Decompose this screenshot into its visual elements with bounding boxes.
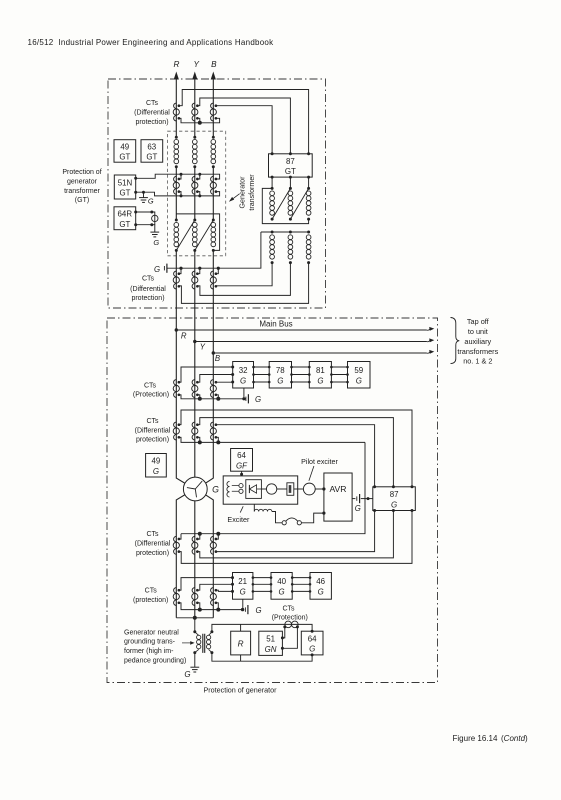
ground: CT3 common earth (154, 264, 167, 275)
svg-text:GT: GT (285, 167, 296, 176)
device: 64R measuring element circle (152, 215, 158, 221)
relay 63GT (141, 140, 163, 163)
wire: 51N GT bottom connection (136, 192, 220, 196)
ground: CT4 common earth (246, 394, 261, 404)
svg-text:G: G (148, 197, 154, 206)
svg-text:GT: GT (119, 153, 130, 162)
wire: relay row 2 links y=591.4 (253, 590, 310, 592)
svg-text:R: R (238, 640, 244, 649)
brace: tap off (451, 318, 460, 364)
brush element box (277, 483, 304, 496)
GT delta winding Y (192, 219, 197, 252)
bus R (175, 327, 435, 341)
svg-text:pedance grounding): pedance grounding) (124, 657, 186, 664)
wire: CT3 R tap to HV coil3 (179, 263, 309, 304)
svg-text:G: G (255, 395, 261, 404)
slip ring contacts (272, 511, 326, 524)
CT B-phase generator differential bottom (210, 536, 217, 554)
svg-text:protection): protection) (131, 295, 164, 302)
label: CTs (Differential protection) generator bottom (135, 531, 171, 557)
HV delta winding 1 (270, 187, 275, 221)
relay 81G (309, 362, 331, 389)
bus Y (193, 338, 434, 351)
HV star winding 3 (306, 231, 311, 265)
wire: CT pair to 51GN (282, 627, 297, 648)
CT R-phase generator protection (173, 588, 180, 606)
node: 87GT terminals x=308.6 (307, 152, 310, 155)
svg-text:transformer: transformer (64, 188, 100, 195)
relay 59G (348, 362, 371, 389)
wire: field loop right edge and bottom (181, 442, 365, 533)
svg-text:81: 81 (316, 366, 325, 375)
wire: CT6 top taps to field loop bottom line (179, 534, 218, 539)
svg-text:63: 63 (147, 142, 156, 151)
wire: CT4 B tap to 32G (216, 381, 233, 383)
HV delta diagonal 1 (272, 188, 290, 219)
wire: phase Y vertical (194, 77, 196, 618)
GT delta diagonal R-Y (176, 220, 195, 250)
phase arrow R (174, 72, 179, 80)
phase arrow Y (192, 72, 197, 80)
relay 32G (233, 362, 254, 389)
relay 64G (301, 631, 323, 655)
svg-text:51: 51 (266, 635, 275, 644)
wire: CT7 R tap to 21G (179, 578, 233, 591)
label: pilot exciter (301, 458, 338, 481)
svg-text:R: R (181, 332, 187, 341)
svg-text:Exciter: Exciter (227, 515, 250, 524)
svg-text:40: 40 (277, 577, 286, 586)
wire: phase B vertical (203, 77, 213, 618)
label: tap off to unit auxiliary transformers (457, 317, 498, 366)
svg-text:49: 49 (120, 142, 129, 151)
dashed enclosure: generator transformer windings (168, 131, 226, 256)
svg-text:21: 21 (238, 577, 247, 586)
wire: CT3 B tap to HV coil1 (216, 263, 272, 286)
relay 49G (146, 454, 167, 478)
figure caption (453, 734, 529, 743)
bus B (212, 350, 435, 363)
svg-text:64R: 64R (118, 210, 133, 219)
wire: CT7 Y tap to 21G (197, 584, 232, 590)
svg-text:to unit: to unit (468, 327, 488, 336)
svg-text:G: G (184, 670, 190, 679)
label: CTs (Protection) neutral (272, 605, 308, 621)
relay 51N GT (114, 175, 135, 199)
ground: 51N GT earth (139, 192, 154, 205)
svg-text:64: 64 (237, 451, 246, 460)
node: 87GT terminals x=272.1 (271, 152, 274, 155)
relay 64GF (231, 449, 253, 472)
CT Y-phase generator protection (192, 588, 199, 606)
wire: pilot exciter to AVR (315, 488, 324, 490)
svg-text:auxiliary: auxiliary (464, 337, 491, 346)
wire: secondary loop top (212, 624, 312, 631)
HV star winding 1 (270, 231, 275, 265)
wire: 87GT to HV delta tops (272, 177, 309, 188)
wire: CT3 common line to ground and HV star (167, 232, 261, 274)
wire: CT7 common to earth (179, 603, 244, 610)
CT R-phase GT 51N (173, 176, 180, 194)
wire: relay row 2 links y=577.6 (253, 577, 310, 579)
svg-text:G: G (356, 376, 362, 385)
svg-text:grounding trans-: grounding trans- (124, 639, 176, 646)
CT Y-phase GT differential top (192, 103, 199, 121)
CT R-phase GT differential bottom (173, 271, 180, 289)
exciter field coil (227, 481, 230, 497)
svg-text:G: G (277, 376, 283, 385)
CT Y-phase GT 51N (192, 176, 199, 194)
GT delta winding connection lines (176, 214, 219, 251)
relay 40G (271, 573, 292, 600)
wire: CT4 common to earth (179, 395, 244, 399)
CT Y-phase bus protection (192, 380, 199, 398)
svg-text:CTs: CTs (146, 418, 159, 425)
wire: relay row 2 links y=584.3 (253, 583, 310, 585)
svg-text:CTs: CTs (146, 100, 159, 107)
svg-text:GN: GN (265, 645, 277, 654)
relay 78G (269, 362, 291, 389)
exciter rotating element circle (261, 488, 266, 490)
CT B-phase GT differential bottom (210, 271, 217, 289)
generator G (183, 477, 219, 501)
dashed enclosure: protection of generator transformer (108, 79, 326, 308)
ground: CT7 common earth (245, 605, 261, 615)
HV star winding 2 (288, 231, 293, 265)
svg-text:(Protection): (Protection) (272, 615, 308, 622)
node: 87GT terminals x=290.4 (289, 152, 292, 155)
wire: relay row links y=382.0 (254, 381, 348, 383)
svg-text:G: G (391, 500, 397, 509)
svg-text:Pilot exciter: Pilot exciter (301, 458, 338, 466)
svg-text:Protection of generator: Protection of generator (203, 686, 277, 695)
svg-text:(Differential: (Differential (130, 286, 166, 293)
GT delta winding R (174, 219, 179, 252)
CT Y-phase generator differential bottom (192, 536, 199, 554)
svg-text:AVR: AVR (329, 484, 346, 494)
svg-text:(Protection): (Protection) (133, 392, 169, 399)
svg-text:(Contd): (Contd) (501, 734, 528, 743)
svg-text:46: 46 (316, 577, 325, 586)
svg-text:R: R (174, 60, 180, 69)
wire: CT1 R tap to 87GT (179, 90, 309, 154)
wire: 87G to CT6 B (216, 511, 375, 552)
svg-text:former (high im-: former (high im- (124, 648, 174, 655)
svg-text:Tap off: Tap off (467, 317, 490, 326)
svg-text:(Differential: (Differential (135, 428, 171, 435)
label: CTs differential protection (top) (134, 100, 170, 126)
wire: CT1 star common (179, 118, 220, 123)
wire: AVR to 87G with ground (352, 494, 373, 513)
svg-text:51N: 51N (118, 178, 133, 187)
label: CTs (Protection) bus (133, 382, 169, 398)
svg-text:Figure 16.14: Figure 16.14 (453, 734, 498, 743)
exciter terminals (232, 486, 239, 492)
relay 49GT (114, 140, 136, 163)
svg-text:CTs: CTs (142, 276, 155, 283)
svg-text:GT: GT (119, 220, 130, 229)
svg-text:Generator: Generator (239, 176, 247, 209)
relay 87G (373, 487, 416, 511)
svg-text:transformer: transformer (248, 174, 256, 211)
CT R-phase generator differential bottom (173, 536, 180, 554)
wire: phase R vertical (176, 77, 187, 618)
svg-text:G: G (153, 467, 159, 476)
label: exciter (227, 506, 250, 524)
svg-text:G: G (309, 645, 315, 654)
wire: 32G bottom stub to earth point (243, 388, 245, 399)
wire: CT5 B tap to 87G (216, 425, 375, 487)
field inductor below exciter (254, 504, 272, 511)
svg-text:78: 78 (276, 366, 285, 375)
svg-text:87: 87 (390, 490, 399, 499)
wire: CT4 R tap to 32G (179, 367, 233, 382)
node: 87G terminal x=412 (411, 485, 414, 488)
relay 51GN (259, 631, 283, 655)
svg-text:87: 87 (286, 157, 295, 166)
svg-text:G: G (240, 376, 246, 385)
svg-text:GT: GT (146, 153, 157, 162)
ground: 64R earth (150, 225, 159, 247)
HV delta winding 2 (288, 187, 293, 221)
label: CTs (Differential protection) generator top (135, 418, 171, 444)
label: CTs differential protection (below GT) (130, 276, 166, 303)
CT Y-phase generator differential top (192, 422, 199, 440)
wire: 87G to CT6 R (179, 511, 412, 564)
rectifier box with diode (246, 480, 262, 499)
exciter box (223, 476, 298, 504)
wire: CT5 Y tap to 87G (197, 418, 393, 487)
svg-text:B: B (215, 354, 220, 363)
svg-text:G: G (355, 504, 361, 513)
GT primary winding B (211, 136, 216, 169)
relay 87GT (269, 154, 313, 177)
GT primary winding R (174, 136, 179, 169)
HV delta closing loop (262, 188, 308, 223)
AVR box (324, 473, 352, 521)
svg-text:generator: generator (67, 178, 98, 185)
svg-text:Generator neutral: Generator neutral (124, 629, 179, 636)
CT Y-phase GT differential bottom (192, 271, 199, 289)
svg-text:64: 64 (308, 635, 317, 644)
svg-text:G: G (153, 238, 159, 247)
resistor R box (231, 631, 251, 655)
label: generator neutral grounding transformer (124, 629, 195, 664)
svg-text:16/512 Industrial Power Engin: 16/512 Industrial Power Engineering and … (28, 38, 275, 47)
GT primary winding Y (192, 136, 197, 169)
relay 46G (310, 573, 331, 600)
wire: 64GF stub (241, 471, 243, 476)
grounding transformer (193, 630, 213, 654)
CT R-phase GT differential top (173, 103, 180, 121)
svg-text:CTs: CTs (144, 382, 157, 389)
relay 21G (233, 573, 253, 600)
CT pair on neutral secondary (283, 621, 299, 628)
svg-text:protection): protection) (136, 437, 169, 444)
wire: secondary loop bottom (212, 653, 312, 662)
svg-text:protection): protection) (136, 550, 169, 557)
CT B-phase GT 51N (210, 176, 217, 194)
svg-text:32: 32 (239, 366, 248, 375)
svg-text:B: B (211, 60, 217, 69)
CT B-phase bus protection (210, 380, 217, 398)
CT B-phase GT differential top (210, 103, 217, 121)
label: CTs (protection) generator (133, 588, 168, 604)
wire: CT3 Y tap to HV coil2 (197, 263, 290, 296)
GT delta diagonal Y-B (195, 220, 214, 250)
HV delta diagonal 2 (290, 188, 308, 219)
svg-text:G: G (240, 588, 246, 597)
dashed enclosure: protection of generator (107, 318, 438, 683)
CT B-phase generator differential top (210, 422, 217, 440)
HV star top line (261, 231, 309, 233)
svg-text:G: G (317, 376, 323, 385)
svg-text:G: G (318, 588, 324, 597)
CT R-phase generator differential top (173, 422, 180, 440)
label: generator transformer (rotated) with arrow (229, 174, 256, 211)
wire: CT4 Y tap to 32G (197, 375, 232, 383)
wire: CT7 B tap to 21G (216, 590, 233, 591)
svg-text:CTs: CTs (146, 531, 159, 538)
wire: phase convergence to neutral (176, 618, 213, 632)
wire: R box stubs (240, 624, 242, 661)
svg-text:59: 59 (354, 366, 363, 375)
wire: 21G bottom stub to earth point (242, 599, 244, 609)
wire: CT1 B tap to 87GT (216, 106, 272, 154)
relay 64R GT (114, 207, 136, 230)
wire: 51N GT top connection (136, 174, 220, 179)
svg-text:no. 1 & 2: no. 1 & 2 (463, 357, 492, 366)
node: 87G terminal x=374.6 (373, 485, 376, 488)
wire: 64R GT taps (136, 212, 155, 225)
wire: relay row links y=367.0 (254, 366, 348, 368)
svg-text:(protection): (protection) (133, 597, 168, 604)
svg-text:G: G (279, 588, 285, 597)
node: CT1 common junction (198, 121, 202, 125)
svg-text:GF: GF (236, 462, 248, 471)
svg-text:(GT): (GT) (75, 197, 89, 204)
node: 87G terminal x=393.4 (392, 485, 395, 488)
svg-text:Y: Y (200, 343, 206, 352)
CT B-phase generator protection (210, 588, 217, 606)
svg-text:GT: GT (120, 189, 131, 198)
wire: relay row links y=374.5 (254, 374, 348, 376)
svg-text:protection): protection) (135, 119, 168, 126)
svg-text:49: 49 (152, 457, 161, 466)
CT R-phase bus protection (173, 380, 180, 398)
pilot exciter circle (303, 483, 315, 495)
svg-text:Y: Y (193, 60, 199, 69)
wire: 87G to CT6 Y (197, 511, 393, 558)
HV delta winding 3 (306, 187, 311, 221)
svg-text:CTs: CTs (282, 605, 295, 612)
label: protection of generator transformer (GT) (62, 169, 101, 204)
svg-text:CTs: CTs (145, 588, 158, 595)
ground: transformer neutral earth (184, 653, 199, 679)
svg-text:(Differential: (Differential (134, 110, 170, 117)
phase arrow B (211, 72, 216, 80)
wire: CT5 R tap to 87G (179, 410, 412, 487)
svg-text:Protection of: Protection of (62, 169, 101, 176)
svg-text:G: G (255, 606, 261, 615)
wire: CT5 common / field loop top (179, 437, 365, 442)
svg-text:(Differential: (Differential (135, 541, 171, 548)
svg-text:G: G (154, 265, 160, 274)
GT delta winding B (211, 219, 216, 252)
wire: CT1 Y tap to 87GT (197, 98, 290, 154)
svg-text:Main Bus: Main Bus (259, 320, 292, 329)
svg-text:transformers: transformers (457, 347, 498, 356)
svg-text:G: G (212, 485, 219, 495)
